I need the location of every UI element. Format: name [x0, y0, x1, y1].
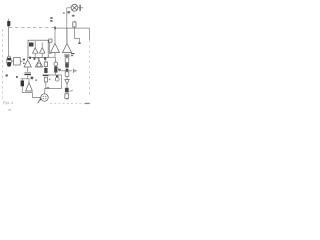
svg-text:Rys. 4: Rys. 4 — [3, 101, 13, 105]
